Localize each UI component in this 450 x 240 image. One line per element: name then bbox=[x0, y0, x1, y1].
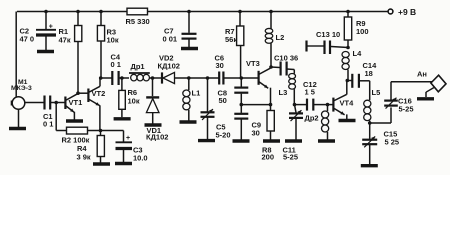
svg-text:+: + bbox=[126, 135, 130, 142]
ground C9 bbox=[233, 139, 250, 142]
node VT2 emitter-R2-R4 bbox=[99, 129, 103, 133]
capacitor C9 bbox=[240, 105, 242, 113]
ground antenna bbox=[417, 97, 434, 100]
wire Dr1 to VD2 bbox=[150, 77, 161, 79]
capacitor C7 bbox=[188, 12, 190, 33]
inductor L2 bbox=[270, 12, 272, 29]
transistor VT4 bbox=[332, 98, 334, 112]
node L3-C11-C12 bbox=[293, 103, 297, 107]
inductor Dr1 bbox=[129, 72, 150, 74]
node C8-C9 bbox=[240, 103, 244, 107]
wire antenna feed bbox=[391, 81, 432, 83]
capacitor C16 (trimmer) bbox=[390, 107, 392, 123]
wire top +9V rail bbox=[17, 11, 390, 13]
resistor R5 bbox=[127, 8, 148, 15]
resistor R6 bbox=[121, 78, 123, 90]
wire C10 to L3 bbox=[287, 68, 295, 71]
svg-text:КД102: КД102 bbox=[158, 62, 180, 71]
node rail-R3 bbox=[99, 10, 103, 14]
node C8-R7 tap bbox=[240, 76, 244, 80]
node R9-L4-C13 bbox=[346, 46, 350, 50]
node C5 tap bbox=[206, 76, 210, 80]
node R3-C4-VT2 bbox=[99, 76, 103, 80]
resistor R9 bbox=[347, 12, 349, 18]
inductor L1 bbox=[188, 78, 190, 90]
resistor R1 bbox=[77, 12, 79, 26]
wire VT4 collector up bbox=[346, 81, 348, 95]
node rail-R7 bbox=[238, 10, 242, 14]
ground R4 bbox=[93, 162, 110, 165]
svg-text:VT4: VT4 bbox=[340, 99, 355, 108]
svg-text:56к: 56к bbox=[225, 35, 237, 44]
capacitor C5 (trimmer) bbox=[207, 78, 209, 112]
ground C5 bbox=[198, 139, 215, 142]
inductor Dr2 bbox=[327, 105, 329, 111]
capacitor C3 (electrolytic) bbox=[123, 131, 125, 142]
svg-text:5-25: 5-25 bbox=[283, 153, 298, 162]
svg-text:VT3: VT3 bbox=[246, 59, 260, 68]
svg-text:L5: L5 bbox=[372, 88, 381, 97]
ground M1 bbox=[9, 127, 26, 130]
inductor L3 bbox=[293, 70, 295, 74]
svg-text:3 9к: 3 9к bbox=[77, 153, 91, 162]
wire C14 to L5 bbox=[359, 80, 370, 82]
resistor R2 bbox=[67, 127, 88, 134]
svg-text:L4: L4 bbox=[353, 49, 363, 58]
svg-text:КД102: КД102 bbox=[146, 133, 168, 142]
capacitor C11 (trimmer) bbox=[295, 105, 297, 113]
node rail-L2 bbox=[269, 10, 273, 14]
ground Dr2 bbox=[318, 139, 335, 142]
wire C1 to VT1 base bbox=[50, 102, 65, 104]
svg-text:5-20: 5-20 bbox=[216, 131, 231, 140]
terminal +9V bbox=[388, 9, 393, 14]
svg-text:100: 100 bbox=[356, 27, 369, 36]
svg-text:200: 200 bbox=[262, 153, 275, 162]
ground R6 bbox=[114, 117, 131, 120]
capacitor C6 bbox=[218, 72, 220, 85]
ground VT1 emitter bbox=[66, 119, 83, 122]
antenna An bbox=[431, 75, 446, 92]
svg-text:5-25: 5-25 bbox=[399, 105, 414, 114]
node rail-C2 bbox=[44, 10, 48, 14]
node rail-R1 bbox=[76, 10, 80, 14]
inductor L5 bbox=[369, 81, 371, 100]
svg-text:С13 10: С13 10 bbox=[316, 30, 340, 39]
ground C2 bbox=[37, 50, 54, 53]
svg-text:18: 18 bbox=[365, 69, 373, 78]
wire C6 to VT3 base bbox=[223, 77, 258, 79]
wire VT4 emitter to ground bbox=[346, 114, 348, 119]
microphone M1 bbox=[12, 97, 25, 110]
wire VT2 collector node to C4 bbox=[101, 77, 112, 79]
wire VT1 collector to VT2 base bbox=[78, 92, 88, 94]
transistor VT3 bbox=[258, 71, 260, 85]
wire VT3 collector to L2 node bbox=[269, 67, 271, 68]
capacitor C2 (electrolytic) bbox=[45, 12, 47, 30]
node L5-C15-C16 bbox=[368, 121, 372, 125]
wire VT2 emitter node to C3 bbox=[101, 130, 124, 132]
resistor R4 bbox=[100, 131, 102, 136]
wire VT1 base to R2 bbox=[55, 103, 57, 131]
svg-text:МКЭ-3: МКЭ-3 bbox=[11, 85, 32, 92]
wire microphone to ground bbox=[18, 109, 20, 127]
svg-text:30: 30 bbox=[252, 129, 260, 138]
wire C4 to Dr1 bbox=[119, 77, 129, 79]
ground C7 bbox=[181, 47, 198, 50]
node VT3 emitter-C9 tap bbox=[269, 103, 273, 107]
svg-text:0 01: 0 01 bbox=[163, 35, 178, 44]
svg-text:1 5: 1 5 bbox=[305, 88, 315, 97]
svg-text:50: 50 bbox=[219, 96, 227, 105]
node rail-R9 bbox=[346, 10, 350, 14]
transistor VT2 bbox=[87, 89, 89, 103]
node VT4 collector-L4-C14 bbox=[346, 79, 350, 83]
ground VT4 emitter bbox=[339, 119, 356, 122]
svg-text:VT1: VT1 bbox=[69, 98, 83, 107]
wire R2 to VT2 emitter node bbox=[88, 130, 101, 132]
capacitor C14 bbox=[347, 80, 351, 82]
wire microphone output bbox=[25, 102, 44, 104]
node VD1 tap bbox=[151, 76, 155, 80]
node C1-VT1-R2 bbox=[54, 101, 58, 105]
capacitor C12 bbox=[295, 104, 307, 106]
diode VD1 KD102 (varicap) bbox=[152, 78, 154, 96]
wire C8-C9 node to VT3 emitter bbox=[241, 104, 270, 106]
svg-text:5 25: 5 25 bbox=[385, 138, 400, 147]
wire R7 to VT3 base line bbox=[240, 46, 242, 79]
svg-text:10.0: 10.0 bbox=[133, 154, 148, 163]
capacitor C8 bbox=[240, 78, 242, 87]
ground R8 bbox=[263, 139, 280, 142]
wire R3 to VT2 collector node bbox=[100, 41, 102, 78]
inductor L4 bbox=[342, 52, 349, 58]
svg-text:10к: 10к bbox=[128, 97, 140, 106]
wire VT2 collector to R3 node bbox=[99, 78, 101, 86]
node C4-R6 bbox=[120, 76, 124, 80]
svg-text:Др1: Др1 bbox=[131, 62, 145, 71]
capacitor C10 bbox=[271, 66, 280, 69]
node C12-Dr2-VT4 bbox=[326, 103, 330, 107]
diode VD2 KD102 bbox=[161, 72, 163, 83]
wire VT3 emitter down bbox=[270, 88, 272, 111]
node VT3 collector bbox=[269, 65, 273, 69]
wire R1 to VT1 collector bbox=[77, 42, 79, 94]
svg-text:L1: L1 bbox=[192, 89, 201, 98]
svg-text:L2: L2 bbox=[276, 33, 285, 42]
wire C15 node to C16 bbox=[370, 122, 391, 124]
svg-text:L3: L3 bbox=[279, 88, 288, 97]
resistor R3 bbox=[100, 12, 102, 26]
resistor R8 bbox=[267, 111, 274, 132]
svg-text:+9 В: +9 В bbox=[398, 7, 416, 17]
wire left supply drop to microphone bbox=[15, 12, 17, 98]
svg-text:0 1: 0 1 bbox=[43, 120, 53, 129]
svg-text:Ан: Ан bbox=[417, 70, 427, 79]
svg-text:С10 36: С10 36 bbox=[274, 54, 298, 63]
svg-text:+: + bbox=[49, 24, 53, 31]
svg-text:Др2: Др2 bbox=[305, 114, 319, 123]
resistor R7 bbox=[239, 12, 241, 27]
ground L1 bbox=[180, 120, 197, 123]
svg-text:10к: 10к bbox=[107, 36, 119, 45]
svg-text:VT2: VT2 bbox=[92, 89, 106, 98]
wire C5 node to C6 bbox=[208, 77, 220, 79]
svg-text:47 0: 47 0 bbox=[20, 35, 35, 44]
wire L1 node to C5 node bbox=[189, 77, 208, 79]
capacitor C13 bbox=[305, 41, 307, 52]
ground C11 bbox=[285, 139, 302, 142]
svg-text:30: 30 bbox=[216, 61, 224, 70]
node L1 tap bbox=[187, 76, 191, 80]
svg-text:R5 330: R5 330 bbox=[126, 17, 150, 26]
capacitor C4 bbox=[111, 71, 113, 85]
ground C3 bbox=[115, 162, 132, 165]
wire VT2 emitter down bbox=[99, 105, 101, 130]
ground C15 bbox=[361, 164, 378, 167]
ground VD1 bbox=[145, 123, 162, 126]
node VT1 collector-R1 bbox=[76, 91, 80, 95]
svg-text:47к: 47к bbox=[59, 36, 71, 45]
svg-text:0 1: 0 1 bbox=[111, 60, 121, 69]
capacitor C1 bbox=[43, 96, 45, 110]
node rail-C7 bbox=[187, 10, 191, 14]
wire C12 node to VT4 base bbox=[328, 104, 333, 106]
transistor VT1 bbox=[64, 97, 66, 110]
wire VD2 to L1 node bbox=[175, 77, 189, 79]
capacitor C15 (trimmer) bbox=[369, 123, 371, 139]
